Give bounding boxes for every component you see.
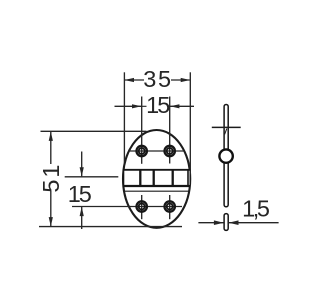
svg-text:15: 15 [146, 92, 170, 118]
knuckle divider 3 [172, 169, 174, 187]
knuckle band fill [123, 169, 190, 186]
knuckle divider 1 [139, 169, 141, 187]
svg-text:15: 15 [68, 181, 92, 207]
screw hole bottom-right [165, 201, 175, 211]
oval hinge leaf outline [123, 130, 190, 228]
knuckle band right cap [187, 169, 189, 187]
dimension 35 line left segment with arrow [125, 78, 144, 82]
side view upper plate (capsule) [224, 105, 228, 207]
extension line 15 right (x=169.7) through top-right hole [169, 97, 171, 164]
dimension 51: bottom reference line (tangent to oval bottom) [39, 226, 182, 228]
dimension 1,5 left arrow [198, 220, 224, 225]
screw hole top-left [137, 146, 147, 156]
svg-text:51: 51 [38, 163, 64, 193]
top holes horizontal crosshair line [129, 150, 184, 152]
bottom-right hole vertical crosshair [169, 195, 171, 219]
side view leaf split diagonal [225, 129, 227, 135]
side view lower plate (capsule) [224, 214, 228, 231]
dimension text 15 top (white backing) [147, 97, 168, 115]
svg-text:35: 35 [143, 66, 173, 92]
lower leaf edge line under knuckle [125, 190, 190, 192]
extension line 35 left (x=124.4) [123, 72, 125, 162]
dimension 51: vertical line with up arrow [49, 132, 53, 165]
dimension 15 top: outside arrow left [115, 104, 142, 108]
side view cross line [212, 126, 241, 128]
screw hole top-right [165, 146, 175, 156]
dimension 35 line right segment with arrow [171, 78, 190, 82]
dimension 51: vertical line with down arrow [49, 191, 53, 227]
knuckle band bottom edge [123, 185, 191, 187]
knuckle divider 2 [153, 169, 155, 187]
dimension 15 left: upper reference line (hinge axis) [65, 176, 119, 178]
side view barrel circle [219, 149, 232, 162]
dimension 51: top reference line [41, 130, 147, 132]
bottom-left hole vertical crosshair [141, 195, 143, 219]
knuckle band top edge [123, 169, 191, 171]
bottom holes horizontal crosshair line (15-left lower reference) [72, 206, 182, 208]
dimension 15 left: down arrow above axis line [80, 152, 84, 177]
screw hole bottom-left [137, 201, 147, 211]
dimension 15 top: outside arrow right [170, 104, 194, 108]
svg-text:1,5: 1,5 [242, 196, 270, 222]
knuckle band left cap [123, 169, 125, 187]
dimension 15 left: up arrow below bottom hole line [80, 207, 84, 229]
dimension 1,5 right arrow [229, 220, 279, 225]
extension line 15 left (x=141.7) through top-left hole [141, 97, 143, 164]
extension line 35 right (x=190.3) [189, 72, 191, 174]
dimension 15 top: line between ticks [142, 105, 170, 107]
